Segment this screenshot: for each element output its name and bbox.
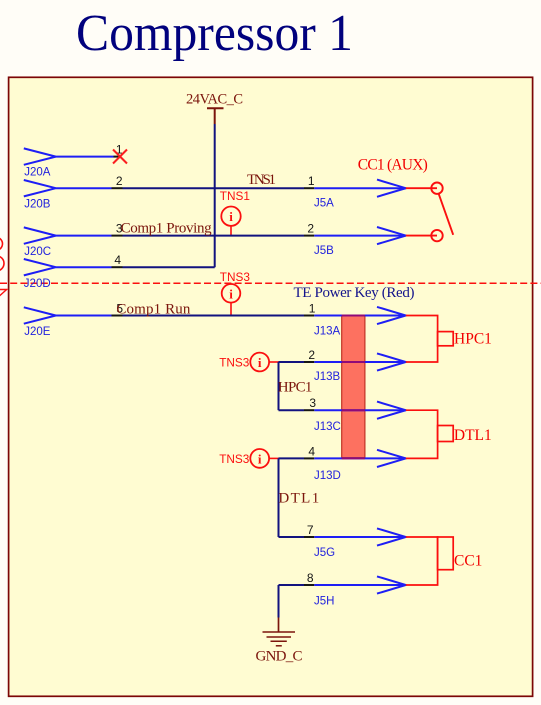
svg-text:J20B: J20B bbox=[24, 199, 51, 211]
pin segment row B left bbox=[112, 187, 123, 189]
svg-text:GND_C: GND_C bbox=[256, 649, 303, 665]
wire J13C segment over key bar bbox=[342, 409, 365, 411]
no-connect X bbox=[113, 150, 127, 164]
wire to ground bbox=[278, 585, 280, 618]
port arrow J13B bbox=[377, 353, 406, 370]
pin segment row B right bbox=[304, 187, 314, 189]
pin segment row E right bbox=[304, 315, 314, 317]
TNS3 stub (row F) bbox=[269, 361, 278, 363]
port pin J5H bbox=[314, 584, 406, 586]
ground stem bbox=[278, 618, 280, 633]
switch wire bottom bbox=[406, 235, 437, 237]
TNS3 info circle (row H) bbox=[250, 449, 269, 468]
wire row G net bbox=[279, 409, 305, 411]
key color bar bbox=[342, 315, 365, 457]
svg-text:J13B: J13B bbox=[314, 371, 341, 383]
wire vertical F-G bbox=[278, 362, 280, 410]
svg-text:J13D: J13D bbox=[314, 470, 341, 482]
wire J13A segment over key bar bbox=[342, 315, 365, 317]
TNS3 info circle (upper) bbox=[222, 284, 241, 303]
ground symbol bbox=[263, 632, 296, 646]
svg-text:3: 3 bbox=[309, 396, 316, 410]
port arrow J13A bbox=[377, 307, 406, 324]
port arrow J13D bbox=[377, 450, 406, 467]
wire J13B segment over key bar bbox=[342, 361, 365, 363]
TNS3 info circle (row F) bbox=[250, 353, 269, 372]
pin segment row D bbox=[112, 266, 123, 268]
svg-text:TE Power Key (Red): TE Power Key (Red) bbox=[294, 285, 415, 301]
svg-text:J20A: J20A bbox=[24, 167, 51, 179]
relay coil HPC1 bbox=[406, 316, 438, 363]
svg-text:i: i bbox=[258, 451, 262, 466]
connector J20C chevron bbox=[24, 227, 56, 243]
svg-text:i: i bbox=[258, 355, 262, 370]
port arrow J5A bbox=[377, 180, 406, 197]
port pin J13D bbox=[314, 457, 406, 459]
pin segment row J bbox=[304, 584, 314, 586]
connector J20D chevron bbox=[24, 259, 56, 275]
svg-text:J20D: J20D bbox=[24, 278, 51, 290]
switch wire top bbox=[406, 187, 437, 189]
svg-text:TNS1: TNS1 bbox=[247, 172, 276, 188]
partition dashed line bbox=[0, 282, 541, 284]
svg-text:J20C: J20C bbox=[24, 246, 51, 258]
connector J20E chevron bbox=[24, 307, 56, 323]
svg-text:24VAC_C: 24VAC_C bbox=[186, 92, 243, 108]
svg-text:CC1 (AUX): CC1 (AUX) bbox=[358, 156, 428, 173]
svg-text:J13C: J13C bbox=[314, 421, 341, 433]
wire row B net TNS1 bbox=[123, 187, 305, 189]
svg-text:4: 4 bbox=[114, 253, 121, 267]
wire row A bbox=[56, 156, 114, 158]
svg-text:HPC1: HPC1 bbox=[454, 331, 492, 348]
TNS1 info circle bbox=[221, 207, 240, 226]
port pin J13A bbox=[314, 315, 406, 317]
pin segment row I bbox=[304, 536, 314, 538]
pin segment row G bbox=[304, 409, 314, 411]
svg-text:J5B: J5B bbox=[314, 245, 334, 257]
svg-text:J5H: J5H bbox=[314, 596, 334, 608]
wire row C left stub bbox=[56, 235, 112, 237]
wire row I net bbox=[279, 536, 305, 538]
svg-text:HPC1: HPC1 bbox=[278, 379, 313, 395]
svg-text:7: 7 bbox=[307, 523, 314, 537]
svg-text:8: 8 bbox=[307, 571, 314, 585]
wire row D left stub bbox=[56, 266, 112, 268]
port pin J13B bbox=[314, 361, 406, 363]
pin segment row H bbox=[304, 457, 314, 459]
pin segment row A bbox=[114, 156, 121, 158]
relay coil CC1 bbox=[406, 537, 438, 585]
svg-text:1: 1 bbox=[309, 302, 316, 316]
svg-text:TNS3: TNS3 bbox=[220, 270, 251, 284]
port arrow J5H bbox=[377, 576, 406, 593]
wire 24VAC_C vertical bbox=[214, 124, 216, 267]
wire row F net bbox=[279, 361, 305, 363]
edge symbol big circle bbox=[0, 256, 4, 271]
port arrow J5G bbox=[377, 528, 406, 545]
svg-text:CC1: CC1 bbox=[454, 553, 482, 570]
wire J13D segment over key bar bbox=[342, 457, 365, 459]
connector J20B chevron bbox=[24, 180, 56, 196]
wire vertical H-I bbox=[278, 458, 280, 537]
wire row J net bbox=[279, 584, 305, 586]
switch contact bottom bbox=[431, 230, 442, 241]
edge symbol triangle bbox=[0, 290, 7, 300]
pin segment row C left bbox=[112, 235, 123, 237]
svg-text:TNS3: TNS3 bbox=[219, 452, 250, 466]
svg-text:DTL1: DTL1 bbox=[278, 491, 319, 507]
svg-text:1: 1 bbox=[308, 174, 315, 188]
svg-text:TNS3: TNS3 bbox=[219, 355, 250, 369]
svg-text:2: 2 bbox=[308, 348, 315, 362]
pin segment row C right bbox=[304, 235, 314, 237]
svg-text:J13A: J13A bbox=[314, 326, 341, 338]
wire row D net bbox=[123, 266, 215, 268]
wire row H net bbox=[279, 457, 305, 459]
TNS1 stem bbox=[230, 226, 232, 236]
svg-text:J5G: J5G bbox=[314, 547, 335, 559]
svg-text:J5A: J5A bbox=[314, 198, 334, 210]
switch blade bbox=[439, 193, 454, 235]
port arrow J5B bbox=[377, 227, 406, 244]
wire row E left stub bbox=[56, 315, 112, 317]
port pin J13C bbox=[314, 409, 406, 411]
svg-text:Comp1 Run: Comp1 Run bbox=[116, 301, 190, 317]
svg-text:2: 2 bbox=[307, 222, 314, 236]
port pin J5G bbox=[314, 536, 406, 538]
TNS3 stub (row H) bbox=[269, 457, 278, 459]
port pin J5B bbox=[314, 235, 406, 237]
pin segment row F bbox=[304, 361, 314, 363]
connector J20A chevron bbox=[24, 148, 56, 164]
svg-text:DTL1: DTL1 bbox=[454, 427, 492, 444]
wire row E net bbox=[123, 315, 305, 317]
wire row C net bbox=[123, 235, 305, 237]
svg-text:i: i bbox=[229, 209, 233, 224]
switch contact top bbox=[431, 183, 442, 194]
pin segment row E left bbox=[112, 315, 123, 317]
svg-text:i: i bbox=[229, 286, 233, 301]
edge symbol small circle bbox=[0, 237, 3, 250]
svg-text:J20E: J20E bbox=[24, 326, 51, 338]
TNS3 stem (upper) bbox=[230, 303, 232, 316]
port arrow J13C bbox=[377, 402, 406, 419]
svg-text:Compressor 1: Compressor 1 bbox=[76, 5, 353, 62]
port pin J5A bbox=[314, 187, 406, 189]
wire row B left stub bbox=[56, 187, 112, 189]
relay coil DTL1 bbox=[406, 410, 438, 458]
svg-text:TNS1: TNS1 bbox=[220, 189, 250, 203]
svg-text:2: 2 bbox=[116, 174, 123, 188]
svg-text:Comp1 Proving: Comp1 Proving bbox=[121, 221, 213, 237]
power symbol 24VAC_C bbox=[207, 108, 224, 124]
svg-text:4: 4 bbox=[308, 444, 315, 458]
